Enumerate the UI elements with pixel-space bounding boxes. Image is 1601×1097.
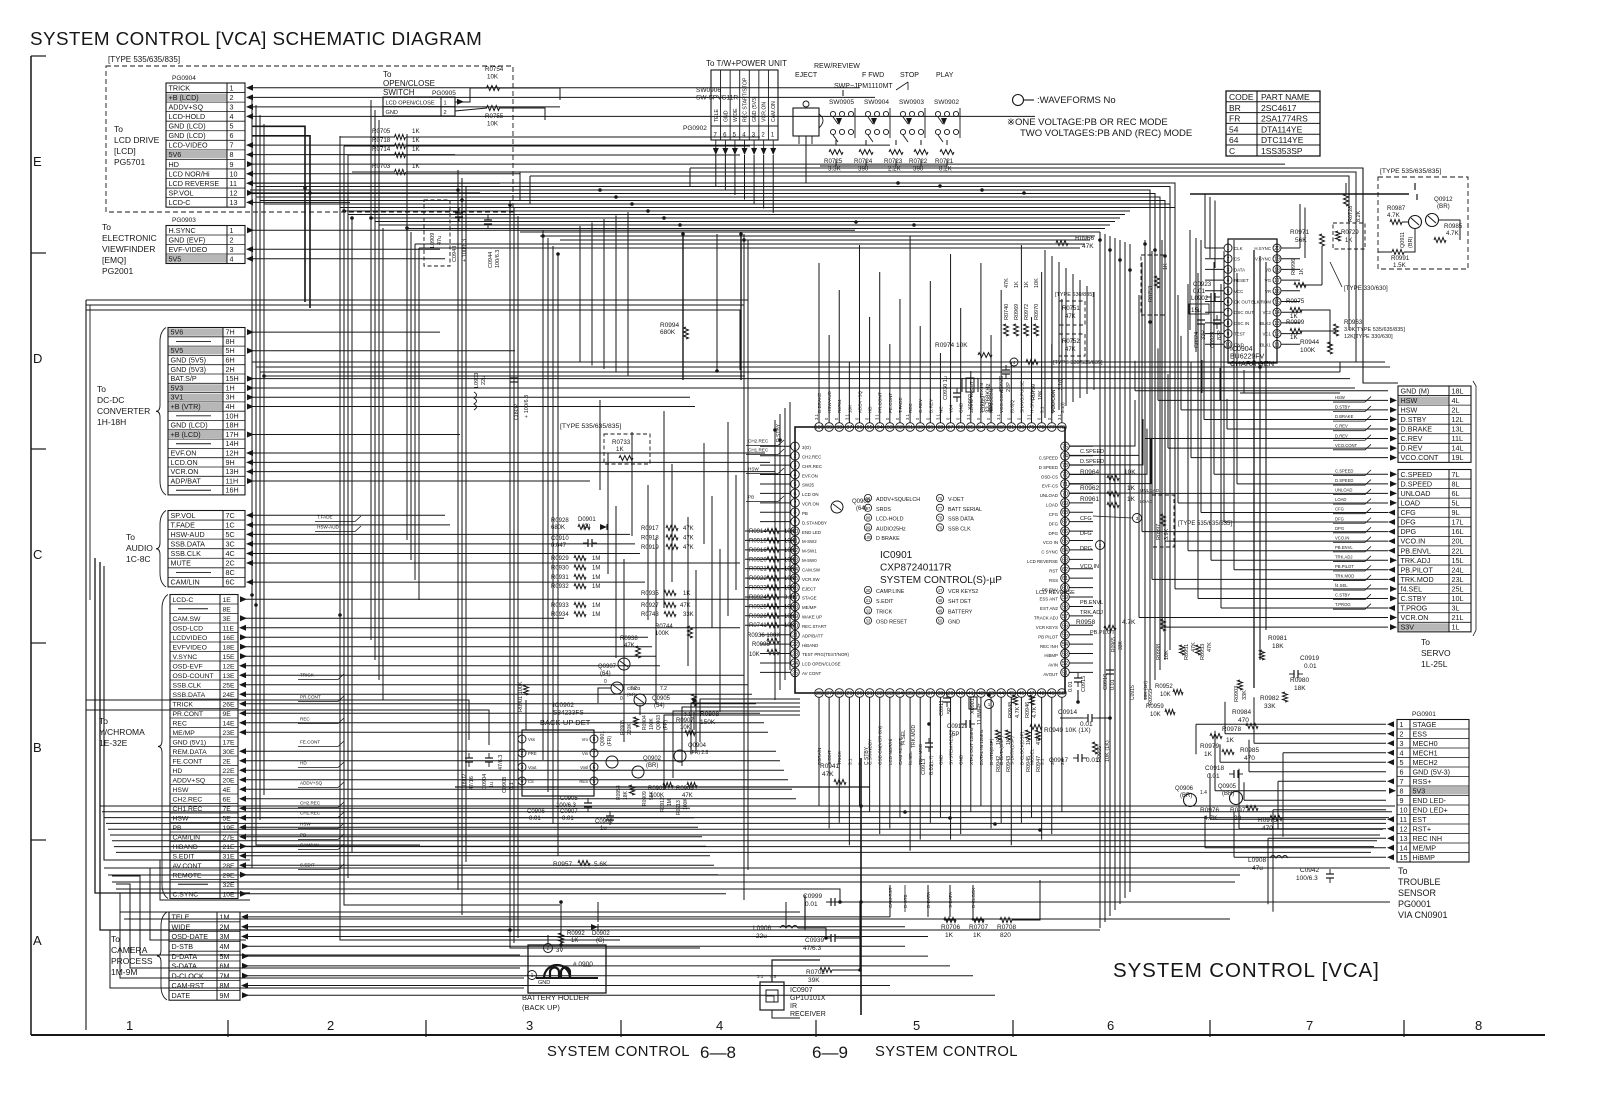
- svg-text:9H: 9H: [226, 458, 235, 467]
- svg-text:# 0900: # 0900: [573, 961, 593, 968]
- wire: [252, 173, 520, 175]
- wire: [745, 530, 767, 532]
- svg-text:SW0905: SW0905: [829, 99, 854, 106]
- svg-text:33: 33: [866, 619, 871, 624]
- wire: [510, 929, 1100, 931]
- wire: [1149, 322, 1151, 393]
- svg-text:19: 19: [1274, 257, 1280, 263]
- wire: [655, 538, 657, 704]
- wire: [1044, 250, 1046, 418]
- node 1 bottom: [985, 700, 994, 709]
- svg-text:CFG: CFG: [1049, 512, 1059, 517]
- wire: [920, 140, 922, 145]
- svg-text:4: 4: [1227, 278, 1230, 284]
- wire: [1139, 617, 1388, 619]
- wire: [339, 136, 341, 208]
- svg-text:TROUBLE: TROUBLE: [1398, 877, 1441, 887]
- wire: [745, 568, 767, 570]
- svg-text:7: 7: [593, 751, 596, 757]
- wire: [252, 433, 460, 435]
- pin 29 IC0901: [845, 689, 854, 698]
- wire: [1104, 234, 1106, 922]
- wire: [919, 697, 921, 840]
- svg-text:1M: 1M: [220, 913, 230, 922]
- transistor Q0908 small: [611, 682, 623, 694]
- wire: [1224, 702, 1226, 734]
- junction: [1118, 258, 1122, 262]
- svg-text:4: 4: [794, 473, 797, 479]
- svg-text:0.01: 0.01: [1086, 757, 1099, 764]
- svg-text:D.BRAKE: D.BRAKE: [1401, 425, 1433, 434]
- wire: [760, 653, 791, 655]
- svg-text:OSD-LCD: OSD-LCD: [173, 625, 204, 632]
- wire: [673, 711, 800, 778]
- svg-text:C.SPEED: C.SPEED: [1335, 469, 1353, 474]
- wire: [343, 146, 345, 211]
- svg-text:LOAD: LOAD: [1046, 503, 1058, 508]
- svg-text:64: 64: [1229, 135, 1239, 145]
- pin 1 IC0904: [1224, 244, 1232, 252]
- wire: [85, 300, 87, 1030]
- wire: [820, 159, 947, 166]
- pin 5 IC0904: [1224, 287, 1232, 295]
- svg-text:R0965: R0965: [1111, 637, 1117, 652]
- svg-text:18: 18: [1274, 267, 1280, 273]
- svg-text:D.SPEED: D.SPEED: [1335, 478, 1353, 483]
- svg-text:REC INH: REC INH: [1040, 644, 1058, 649]
- svg-text:35: 35: [907, 691, 913, 697]
- wire: [1058, 262, 1060, 410]
- svg-text:3: 3: [230, 102, 234, 111]
- svg-text:53: 53: [1062, 652, 1068, 658]
- pin 1 IC0901: [791, 442, 800, 451]
- svg-text:C SYNC: C SYNC: [1041, 550, 1058, 555]
- pin 47 IC0901: [1027, 689, 1036, 698]
- svg-text:OSD RESET: OSD RESET: [876, 620, 908, 626]
- wire: [842, 90, 844, 96]
- resistor R0707: [972, 918, 984, 923]
- svg-text:100: 100: [865, 535, 873, 540]
- svg-text:2: 2: [794, 454, 797, 460]
- wire: [1272, 810, 1274, 912]
- svg-text:SW0902: SW0902: [934, 99, 959, 106]
- pin 24 IC0901: [791, 659, 800, 668]
- wire: [818, 697, 820, 806]
- svg-text:RSS: RSS: [1049, 578, 1058, 583]
- wire: [86, 310, 740, 370]
- wire: [406, 154, 740, 156]
- wire: [252, 154, 455, 156]
- svg-text:R0998: R0998: [1156, 644, 1162, 660]
- svg-text:52: 52: [1062, 661, 1068, 667]
- wire: [252, 115, 1035, 117]
- junction: [692, 698, 696, 702]
- svg-text:1L: 1L: [1452, 623, 1460, 632]
- dashed R0997 box: [1152, 495, 1174, 547]
- svg-text:C0912: C0912: [947, 724, 965, 730]
- svg-text:D.STBY: D.STBY: [1401, 415, 1427, 424]
- wire: [949, 885, 951, 917]
- wire: [1010, 362, 1012, 423]
- node legend LCD-HOLD: [864, 514, 871, 521]
- wire: [1204, 816, 1206, 848]
- pin 12 IC0901: [791, 546, 800, 555]
- wire: [517, 216, 519, 938]
- svg-text:10: 10: [1400, 805, 1408, 814]
- svg-text:ME/MP: ME/MP: [173, 730, 196, 737]
- svg-text:3C: 3C: [226, 540, 235, 549]
- svg-text:5: 5: [1227, 289, 1230, 295]
- wire: [252, 194, 340, 869]
- svg-text:1H-18H: 1H-18H: [97, 417, 126, 427]
- svg-text:LOAD: LOAD: [1401, 499, 1421, 508]
- svg-text:13H: 13H: [226, 467, 239, 476]
- svg-text:C0903: C0903: [627, 686, 641, 691]
- svg-text:26: 26: [816, 691, 822, 697]
- wire: [693, 712, 695, 730]
- junction: [980, 188, 984, 192]
- wire: [1281, 258, 1300, 260]
- svg-text:12: 12: [1274, 332, 1280, 338]
- svg-text:2: 2: [230, 93, 234, 102]
- pin 61 IC0901: [1061, 574, 1070, 583]
- svg-text:M-SW1: M-SW1: [802, 549, 817, 554]
- svg-text:1C: 1C: [226, 520, 235, 529]
- svg-text:Q0912: Q0912: [1434, 196, 1453, 203]
- svg-text:VCR KEYS: VCR KEYS: [1036, 625, 1058, 630]
- svg-text:RECEIVER: RECEIVER: [790, 1011, 826, 1018]
- junction: [1252, 360, 1256, 364]
- svg-text:GND: GND: [948, 620, 960, 626]
- svg-text:LCD REVERSE: LCD REVERSE: [169, 179, 220, 188]
- wire PG0902 pin drop: [772, 140, 774, 148]
- wire: [1205, 333, 1224, 335]
- svg-text:(BACK UP): (BACK UP): [522, 1003, 560, 1012]
- svg-text:9M: 9M: [220, 991, 230, 1000]
- node 3: [1133, 514, 1142, 523]
- svg-text:5V5: 5V5: [169, 254, 182, 263]
- svg-text:820: 820: [1000, 932, 1011, 939]
- svg-text:9: 9: [1227, 332, 1230, 338]
- svg-text:[TYPE 535/635/835]: [TYPE 535/635/835]: [108, 55, 180, 64]
- svg-text:BR: BR: [1229, 103, 1241, 113]
- svg-text:1K: 1K: [1127, 496, 1136, 503]
- pin 26 IC0901: [815, 689, 824, 698]
- battery holder box: [528, 945, 606, 993]
- svg-text:VCR.ON: VCR.ON: [762, 102, 768, 122]
- pin 77 IC0901: [1047, 423, 1056, 432]
- svg-text:L0909: L0909: [430, 233, 436, 248]
- wire: [760, 549, 791, 551]
- svg-text:8.2K: 8.2K: [1356, 210, 1362, 222]
- svg-text:R0991: R0991: [1391, 255, 1410, 262]
- connector PG0902: [711, 70, 778, 140]
- pin 81 IC0901: [1007, 423, 1016, 432]
- svg-text:R0931: R0931: [551, 575, 569, 581]
- svg-text:GND (5V-3): GND (5V-3): [1413, 767, 1451, 776]
- svg-text:10K: 10K: [487, 74, 499, 81]
- svg-text:A: A: [33, 933, 42, 948]
- svg-text:21L: 21L: [1452, 613, 1464, 622]
- svg-text:+B (LCD): +B (LCD): [171, 430, 201, 439]
- svg-text:R0918: R0918: [641, 535, 659, 541]
- svg-text:6: 6: [1107, 1018, 1114, 1033]
- svg-text:100/6.3: 100/6.3: [1296, 875, 1318, 882]
- svg-text:VCC: VCC: [1234, 289, 1243, 294]
- svg-text:47K: 47K: [624, 643, 635, 649]
- svg-text:30: 30: [866, 588, 871, 593]
- wire: [106, 822, 1386, 824]
- svg-text:5V5: 5V5: [171, 346, 184, 355]
- column tick: [1209, 1020, 1211, 1037]
- junction: [630, 202, 634, 206]
- svg-text:16H: 16H: [226, 486, 239, 495]
- wire: [1069, 558, 1093, 560]
- svg-text:C: C: [33, 547, 42, 562]
- svg-text:LCD OPEN/CLOSE: LCD OPEN/CLOSE: [802, 662, 841, 667]
- svg-text:18L: 18L: [1452, 386, 1464, 395]
- svg-text:To: To: [383, 70, 392, 79]
- svg-text:54: 54: [1062, 642, 1068, 648]
- svg-text:6H: 6H: [226, 356, 235, 365]
- wire: [1060, 717, 1083, 719]
- wire: [95, 893, 524, 978]
- wire: [418, 248, 420, 600]
- wire: [700, 699, 800, 742]
- svg-text:UNLOAD: UNLOAD: [1040, 493, 1058, 498]
- svg-text:H.SYNC: H.SYNC: [1254, 246, 1271, 251]
- wire: [1265, 262, 1267, 630]
- connector Y/CHROMA: [170, 595, 238, 899]
- wire: [1069, 419, 1143, 465]
- wire: [1240, 392, 1284, 394]
- svg-text:4: 4: [230, 112, 234, 121]
- wire: [1214, 201, 1216, 269]
- svg-text:PB.PILOT: PB.PILOT: [1090, 630, 1115, 636]
- pin 96 IC0901: [855, 423, 864, 432]
- wire: [1227, 428, 1388, 430]
- wire: [245, 760, 780, 762]
- wire: [1283, 752, 1386, 754]
- wire: [615, 506, 617, 658]
- svg-text:2: 2: [327, 1018, 334, 1033]
- svg-text:21E: 21E: [223, 844, 236, 851]
- svg-text:55: 55: [1062, 633, 1068, 639]
- junction: [1128, 268, 1132, 272]
- wire: [245, 769, 784, 771]
- svg-text:31E: 31E: [223, 853, 236, 860]
- wire: [410, 232, 412, 560]
- wire: [1041, 697, 1043, 840]
- svg-text:5P: 5P: [947, 707, 953, 714]
- svg-text:CODE: CODE: [1229, 92, 1254, 102]
- svg-text:33K: 33K: [1118, 640, 1124, 650]
- svg-text:6: 6: [1227, 300, 1230, 306]
- wire: [804, 895, 806, 930]
- wire: [245, 665, 660, 667]
- svg-text:1M: 1M: [667, 799, 673, 806]
- wire: [1174, 262, 1176, 589]
- svg-text:R0984: R0984: [1232, 709, 1252, 716]
- svg-text:3.1: 3.1: [1057, 414, 1062, 420]
- svg-text:LCD.ON: LCD.ON: [171, 458, 198, 467]
- svg-text:22u: 22u: [481, 376, 487, 385]
- wire: [623, 559, 625, 742]
- wire: [104, 566, 250, 860]
- svg-text:CAMERA: CAMERA: [111, 945, 148, 955]
- svg-text:4M: 4M: [220, 942, 230, 951]
- node legend SSB CLK: [936, 524, 943, 531]
- wire: [245, 674, 744, 676]
- wire: [1020, 697, 1022, 823]
- svg-text:DATE: DATE: [172, 991, 191, 1000]
- svg-text:CAM/LIN: CAM/LIN: [171, 578, 200, 587]
- svg-text:R0981: R0981: [1268, 635, 1288, 642]
- wire: [1178, 502, 1388, 504]
- wire: [1267, 838, 1269, 904]
- battery symbol: [544, 965, 570, 978]
- wire: [691, 703, 800, 754]
- svg-text:IC0902: IC0902: [553, 702, 574, 709]
- wire: [1244, 370, 1340, 393]
- column tick: [620, 1020, 622, 1037]
- svg-text:HSW: HSW: [1401, 396, 1418, 405]
- svg-text:R0951: R0951: [1184, 644, 1190, 660]
- pin 30 IC0901: [855, 689, 864, 698]
- svg-text:12L: 12L: [1452, 415, 1464, 424]
- pin 10 IC0904: [1224, 340, 1232, 348]
- wire: [1069, 615, 1093, 617]
- svg-text:11: 11: [1274, 342, 1279, 348]
- svg-text:+B (LCD): +B (LCD): [169, 93, 199, 102]
- wire: [1169, 255, 1171, 650]
- svg-text:V-DET: V-DET: [948, 497, 965, 503]
- pin 48 IC0901: [1037, 689, 1046, 698]
- svg-text:R0952: R0952: [1155, 684, 1173, 690]
- wire: [256, 366, 1390, 368]
- svg-text:47K: 47K: [682, 793, 693, 799]
- wire: [1119, 240, 1121, 904]
- wire: [245, 893, 726, 895]
- svg-text:82P: 82P: [1217, 330, 1223, 340]
- svg-text:DFG: DFG: [1401, 518, 1417, 527]
- wire: [374, 222, 376, 661]
- svg-text:CLK: CLK: [1234, 246, 1243, 251]
- junction: [559, 943, 563, 947]
- svg-text:DPG: DPG: [1080, 546, 1092, 552]
- svg-text:57: 57: [1062, 614, 1068, 620]
- svg-text:D.SPEED: D.SPEED: [1401, 479, 1433, 488]
- wire: [108, 828, 1383, 830]
- wire: [344, 210, 1130, 212]
- svg-text:CS: CS: [1234, 257, 1240, 262]
- wire: [1069, 530, 1093, 532]
- svg-text:VCO.IN: VCO.IN: [1335, 535, 1349, 540]
- pin 2 IC0901: [791, 451, 800, 460]
- svg-text:(C): (C): [596, 938, 604, 944]
- svg-text:83: 83: [988, 425, 994, 431]
- wire: [1214, 731, 1216, 791]
- svg-text:R0754: R0754: [485, 66, 504, 73]
- svg-text:TRICK: TRICK: [169, 83, 191, 92]
- svg-text:18K: 18K: [1294, 685, 1306, 692]
- svg-text:8L: 8L: [1452, 479, 1460, 488]
- svg-text:47K: 47K: [680, 603, 691, 609]
- svg-text:0.01: 0.01: [805, 901, 818, 908]
- svg-text:R0947: R0947: [1036, 756, 1042, 772]
- wire: [599, 400, 601, 490]
- pin 58 IC0901: [1061, 602, 1070, 611]
- wire: [378, 120, 380, 225]
- junction: [614, 195, 618, 199]
- svg-text:C0910: C0910: [551, 536, 569, 542]
- svg-text:1: 1: [126, 1018, 133, 1033]
- svg-text:ADDV+SQ: ADDV+SQ: [300, 781, 323, 786]
- svg-text:Q0907: Q0907: [598, 664, 617, 670]
- svg-text:1: 1: [1227, 246, 1230, 252]
- svg-text:RSS+: RSS+: [1413, 777, 1432, 786]
- svg-text:VCO IN: VCO IN: [1043, 540, 1058, 545]
- code/part table: [1226, 91, 1320, 156]
- wire PG0902 pin drop: [744, 140, 746, 148]
- wire: [1142, 531, 1388, 533]
- wire PG0902 pin drop: [724, 140, 726, 148]
- svg-text:1K: 1K: [973, 932, 982, 939]
- svg-text:R0994: R0994: [660, 322, 680, 329]
- pin 3 IC0904: [1224, 265, 1232, 273]
- junction: [1108, 248, 1112, 252]
- svg-text:1K: 1K: [1163, 263, 1169, 270]
- svg-text:7L: 7L: [1452, 470, 1460, 479]
- wire: [745, 587, 767, 589]
- svg-text:R0982: R0982: [1260, 695, 1280, 702]
- pin 72 IC0901: [1061, 470, 1070, 479]
- junction: [993, 822, 997, 826]
- pin 35 IC0901: [906, 689, 915, 698]
- pin 57 IC0901: [1061, 612, 1070, 621]
- svg-text:[TYPE 330/535/835]: [TYPE 330/535/835]: [1053, 360, 1103, 366]
- svg-text:SYSTEM CONTROL [VCA]: SYSTEM CONTROL [VCA]: [1113, 959, 1380, 982]
- svg-text:R0963: R0963: [1344, 319, 1363, 326]
- svg-text:2L: 2L: [1452, 405, 1460, 414]
- svg-text:5P: 5P: [952, 732, 959, 738]
- svg-text:Vosl: Vosl: [580, 765, 588, 770]
- svg-text:To: To: [102, 222, 111, 232]
- junction: [460, 198, 464, 202]
- wire: [1161, 240, 1163, 627]
- svg-text:4: 4: [716, 1018, 723, 1033]
- wire: [1239, 828, 1386, 830]
- svg-text:ME/MP: ME/MP: [802, 605, 816, 610]
- wire: [879, 272, 881, 423]
- svg-text:5V3: 5V3: [171, 383, 184, 392]
- dashed R0729 box: [1333, 223, 1365, 249]
- transistor Q0905: [634, 694, 646, 706]
- wire: [1189, 230, 1191, 330]
- wire: [1196, 723, 1386, 725]
- svg-text:1K: 1K: [945, 932, 954, 939]
- svg-text:34: 34: [897, 691, 903, 697]
- svg-text:PB.ENVL: PB.ENVL: [1335, 545, 1353, 550]
- svg-text:IC0907: IC0907: [790, 987, 813, 994]
- svg-text:HD: HD: [169, 160, 179, 169]
- svg-text:1C-8C: 1C-8C: [126, 554, 151, 564]
- svg-text:50: 50: [1059, 691, 1065, 697]
- svg-text:28: 28: [836, 691, 842, 697]
- svg-text:7: 7: [1306, 1018, 1313, 1033]
- pin 12 IC0904: [1273, 330, 1281, 338]
- wire: [245, 703, 756, 705]
